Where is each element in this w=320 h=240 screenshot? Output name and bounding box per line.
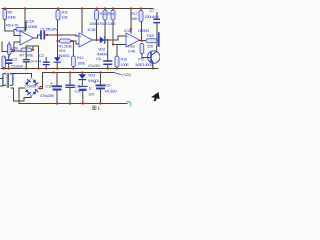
- svg-text:C10: C10: [46, 84, 54, 89]
- svg-text:100E4700E100E: 100E4700E100E: [89, 21, 116, 26]
- junction dots bottom rail: [39, 87, 102, 104]
- svg-text:R14: R14: [108, 11, 116, 16]
- wire secondary bottom lead to bridge: [11, 88, 31, 101]
- capacitor C2: [44, 58, 50, 69]
- svg-text:IN4001: IN4001: [59, 53, 71, 58]
- svg-text:-: -: [21, 41, 22, 45]
- svg-text:R13: R13: [100, 11, 108, 16]
- wire bridge plus to rail B: [39, 73, 43, 89]
- svg-text:R7 300E: R7 300E: [20, 53, 34, 58]
- battery E: [79, 86, 88, 103]
- wire secondary top lead to bridge: [11, 74, 32, 78]
- svg-text:100E: 100E: [77, 61, 86, 66]
- svg-text:C4 0.01: C4 0.01: [30, 59, 43, 64]
- transistor VT1: [148, 51, 160, 63]
- svg-text:10E: 10E: [62, 15, 69, 20]
- op-amp IC1A: [20, 31, 34, 45]
- wire R13 leads: [96, 9, 98, 41]
- wire R1 leads: [58, 41, 80, 44]
- resistor R17: [139, 11, 143, 22]
- resistor R16: [115, 56, 119, 67]
- wire R16 leads: [116, 45, 118, 69]
- op-amp IC1B power pin wire: [81, 9, 83, 34]
- svg-text:470u25V: 470u25V: [40, 93, 55, 98]
- svg-text:12V: 12V: [88, 92, 95, 97]
- resistor R18: [140, 44, 144, 54]
- wire IC1B top input: [58, 35, 80, 36]
- svg-text:VD3: VD3: [88, 73, 96, 78]
- svg-text:100K: 100K: [8, 15, 17, 20]
- wire R11 leads: [57, 9, 60, 58]
- svg-text:IC3A: IC3A: [124, 28, 132, 33]
- svg-text:R6 4.7K: R6 4.7K: [6, 23, 19, 28]
- wire +12V rail B: [43, 72, 115, 74]
- transformer T core: [7, 74, 8, 88]
- capacitor C11: [66, 73, 74, 104]
- wire IC1A input wires: [2, 31, 20, 52]
- svg-text:0.1u: 0.1u: [75, 89, 82, 94]
- bridge diode lower-right: [32, 89, 37, 95]
- resistor R13: [95, 10, 99, 20]
- capacitor C3: [6, 56, 12, 69]
- wire R18 to VT1 base: [142, 54, 151, 58]
- svg-text:47u16V: 47u16V: [88, 63, 101, 68]
- op-amp IC1B: [79, 33, 93, 47]
- capacitor polarity marks: [4, 29, 96, 85]
- svg-text:-: -: [80, 42, 81, 46]
- junction dots top rail: [4, 7, 142, 9]
- op-amp IC3A: [126, 33, 140, 47]
- svg-text:+: +: [127, 35, 129, 39]
- wire bottom rail: [19, 103, 127, 105]
- svg-text:47u16V: 47u16V: [105, 89, 118, 94]
- wire R19 right lead: [157, 41, 159, 46]
- svg-text:30K: 30K: [12, 46, 19, 51]
- wire IC3A output: [140, 40, 147, 42]
- bridge diode upper-left: [25, 80, 30, 86]
- svg-text:R16: R16: [121, 57, 129, 62]
- wire top rail: [2, 8, 153, 10]
- capacitor C1: [34, 32, 58, 39]
- wire VT1 collector: [156, 24, 158, 51]
- svg-text:2W05: 2W05: [27, 84, 37, 89]
- diode VD3: [79, 73, 86, 86]
- svg-text:VT2: VT2: [138, 57, 146, 62]
- junction dots ground rail: [3, 67, 154, 69]
- wire IC3A minus input: [113, 44, 126, 46]
- svg-text:图 1: 图 1: [92, 106, 100, 111]
- op-amp U IC1A power pin wire: [24, 9, 26, 32]
- connector bottom rail end: [127, 102, 131, 106]
- svg-text:(+12V): (+12V): [122, 73, 131, 77]
- resistor R19: [146, 39, 157, 43]
- svg-text:+: +: [21, 34, 23, 38]
- resistor R5: [3, 10, 7, 20]
- wire R6 leads: [14, 22, 26, 30]
- capacitor C7: [154, 13, 160, 25]
- resistor R11: [56, 10, 60, 20]
- svg-text:10K: 10K: [131, 16, 138, 21]
- bridge diode upper-right: [33, 79, 38, 85]
- diode VD1: [54, 57, 61, 68]
- diode VD2: [100, 37, 105, 43]
- resistor R1 110E: [60, 39, 71, 43]
- transformer T primary coil: [3, 73, 6, 85]
- svg-text:R12: R12: [77, 55, 85, 60]
- wire R17 leads: [140, 9, 143, 41]
- svg-text:220u16V: 220u16V: [145, 14, 160, 19]
- wire +12V output arrow: [114, 73, 121, 75]
- bridge diode lower-left: [25, 89, 30, 95]
- transformer T secondary coil: [10, 73, 13, 85]
- svg-text:IC1B: IC1B: [88, 27, 96, 32]
- wire R12 leads: [72, 41, 74, 69]
- bridge rectifier frame: [25, 78, 39, 97]
- resistor R8: [2, 56, 6, 68]
- wire R7 leads: [14, 46, 39, 69]
- svg-text:100E: 100E: [121, 62, 130, 67]
- svg-text:R19: R19: [147, 33, 155, 38]
- wire IC1B output: [93, 39, 100, 41]
- svg-text:IC1A: IC1A: [26, 19, 34, 24]
- wire ground rail A: [1, 68, 158, 70]
- capacitor C6: [104, 40, 112, 69]
- svg-text:2.4K: 2.4K: [128, 49, 136, 54]
- resistor R6: [16, 28, 26, 32]
- svg-text:MJE13003: MJE13003: [136, 62, 154, 67]
- resistor R12: [72, 56, 76, 67]
- capacitor C8: [158, 33, 160, 46]
- wire R5 lead: [5, 9, 14, 32]
- capacitor C4: [24, 46, 30, 69]
- wire R14 leads: [104, 9, 106, 41]
- wire VT1 emitter: [152, 63, 154, 69]
- wire RP leads: [8, 42, 10, 56]
- wire bridge minus to bottom rail: [19, 88, 25, 104]
- resistor R15: [111, 10, 115, 20]
- capacitor C10: [53, 73, 61, 104]
- junction dots mid wires: [12, 28, 143, 53]
- capacitor C9: [97, 73, 105, 104]
- junction dots rail B: [52, 71, 101, 73]
- svg-text:22u63V: 22u63V: [11, 64, 24, 69]
- svg-text:+: +: [80, 35, 82, 39]
- potentiometer RP 30K: [8, 44, 12, 55]
- svg-text:LM358: LM358: [26, 24, 38, 29]
- resistor R7 300E: [21, 48, 32, 52]
- wire RP wiper arrow: [11, 49, 14, 51]
- wire R15 leads: [112, 9, 114, 45]
- wire R8 lead: [3, 68, 5, 69]
- wire VD2 to IC3A: [105, 36, 126, 40]
- resistor R14: [103, 10, 107, 20]
- svg-text:-: -: [127, 42, 128, 46]
- wire mains leads: [0, 79, 3, 87]
- op-amp IC3A power pin wire: [130, 9, 132, 34]
- mouse cursor: [151, 92, 160, 101]
